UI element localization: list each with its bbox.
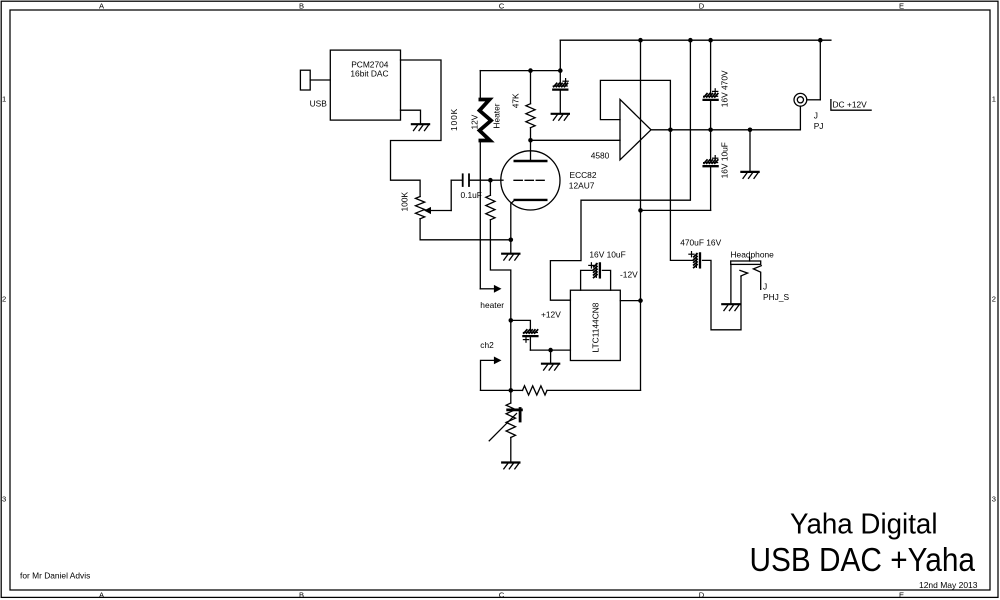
wire supply to LTC1144 [550,40,690,300]
label heater net [480,300,504,310]
ground under rail cap [552,114,569,120]
svg-text:D: D [699,2,705,11]
node op-amp output [668,128,673,133]
node ch2 arrow [481,357,502,391]
resistor R 47K [526,71,535,141]
node signal bottom junction [509,388,514,393]
wire op-amp output row [651,129,800,131]
svg-text:100K: 100K [449,108,459,131]
IC U3 LTC1144CN8 [570,290,620,360]
label +12V [541,310,561,320]
node +12V signal junction [509,318,514,323]
svg-text:16V 470V: 16V 470V [719,70,729,107]
label Headphone [731,250,775,260]
svg-text:12V: 12V [470,114,480,129]
label 16V 10uF pump [589,250,625,260]
svg-text:Heater: Heater [491,103,501,128]
svg-text:C: C [499,2,505,11]
ground at +12V pin [542,364,559,370]
ground under cathode [502,254,519,260]
connector J PJ DC jack [794,40,820,130]
capacitor bypass at rail [553,40,568,112]
node +12V ground junction [548,348,570,363]
tube V1 ECC82 [501,140,560,240]
svg-text:LTC1144CN8: LTC1144CN8 [590,302,600,352]
svg-text:16V 10uF: 16V 10uF [589,250,625,260]
capacitor C 16V 10uF pump [581,263,611,290]
ground under trimmer [502,463,519,469]
svg-text:USB: USB [310,98,328,108]
label 16V 10uF right [719,142,729,178]
label 0.1uF [461,190,482,200]
svg-text:47K: 47K [511,93,521,108]
wire USB to PCM2704 [310,79,330,81]
svg-text:E: E [899,2,904,11]
svg-text:1: 1 [2,95,6,104]
label bracket DC +12V [831,100,871,111]
wire anode to op-amp [531,139,621,141]
svg-text:D: D [699,591,705,600]
resistor grid leak [486,180,511,320]
resistor heater 12V [480,71,492,289]
wire PCM2704 pin to ground [401,110,421,123]
label LTC1144CN8 [590,302,600,352]
svg-text:ECC82: ECC82 [570,170,597,180]
svg-text:Headphone: Headphone [731,250,775,260]
label J PJ [814,110,824,130]
svg-text:100K: 100K [400,192,410,212]
svg-text:E: E [899,591,904,600]
label 16V 470V [719,70,729,107]
label Heater [491,103,501,128]
svg-text:3: 3 [992,495,996,504]
node rail at 690 [688,38,693,43]
svg-text:B: B [299,2,304,11]
svg-text:heater: heater [480,300,504,310]
node output at 710 [708,128,713,133]
node grid junction [488,178,493,183]
svg-text:ch2: ch2 [480,340,494,350]
wire 640 vertical [640,40,642,390]
label title USB DAC +Yaha [750,542,976,579]
svg-text:12nd May 2013: 12nd May 2013 [919,580,978,590]
ground at output [741,172,758,178]
node cathode junction [509,238,514,253]
wire signal vertical [481,320,511,403]
IC U1 PCM2704 [330,50,400,120]
svg-text:PHJ_S: PHJ_S [763,292,789,302]
svg-text:2: 2 [2,295,6,304]
label title Yaha Digital [790,509,938,541]
node heater arrow [480,285,501,293]
node 47K top [528,68,533,73]
svg-text:16bit DAC: 16bit DAC [350,69,388,79]
node rail at DC jack [818,38,823,43]
node rail at 640 [638,38,643,43]
label PCM2704 [350,59,388,78]
capacitor C +12V decouple [511,320,551,350]
wire grid node to tube [490,179,503,181]
label DC +12V [833,99,868,109]
wire 710 bottom to 640 [641,209,711,211]
connector J PHJ_S headphone jack [731,258,762,304]
svg-text:470uF 16V: 470uF 16V [680,237,721,247]
label ch2 net [480,340,494,350]
node -12V junction [638,298,643,303]
label 470uF 16V [680,237,721,247]
node rail at 710 [708,38,713,43]
svg-text:J: J [814,110,818,120]
label 100K upper [449,108,459,131]
svg-text:2: 2 [992,295,996,304]
svg-text:USB DAC +Yaha: USB DAC +Yaha [750,542,976,579]
label 4580 [591,150,610,160]
svg-text:B: B [299,591,304,600]
svg-text:0.1uF: 0.1uF [461,190,482,200]
svg-text:3: 3 [2,495,6,504]
op-amp U2 4580 [620,99,651,159]
wire pot bottom to cathode node [420,219,511,240]
label date 12nd May 2013 [919,580,978,590]
label 47K [511,93,521,108]
label 12V [470,114,480,129]
label 100K pot [400,192,410,212]
svg-text:PJ: PJ [814,121,824,131]
svg-text:1: 1 [992,95,996,104]
capacitor C 470uF 16V [670,130,741,330]
node 640 at 210 [638,208,643,213]
label for Mr Daniel Advis [20,571,90,581]
capacitor C 16V 10uF [704,156,718,211]
svg-text:4580: 4580 [591,150,610,160]
node anode junction [528,138,533,143]
svg-text:J: J [763,281,767,291]
node rail cap junction [558,68,563,73]
wire LTC1144 -12V output [620,300,640,302]
wire rail 12V row [480,70,560,72]
label J PHJ_S [763,281,789,301]
label ECC82 12AU7 [569,170,597,190]
ground headphone sleeve [722,304,739,310]
svg-text:DC +12V: DC +12V [833,99,868,109]
wire top supply rail [560,39,831,41]
svg-text:for Mr Daniel Advis: for Mr Daniel Advis [20,571,90,581]
svg-text:-12V: -12V [620,270,638,280]
capacitor C 0.1uF [463,174,491,186]
svg-text:Yaha Digital: Yaha Digital [790,509,938,541]
label -12V [620,270,638,280]
svg-text:12AU7: 12AU7 [569,180,595,190]
svg-text:C: C [499,591,505,600]
resistor to -12V [511,386,641,395]
ground under PCM2704 [412,124,429,130]
wire PCM2704 output to pot 100K [391,60,442,197]
svg-text:+12V: +12V [541,310,561,320]
potentiometer R 100K [416,180,462,219]
connector USB [300,70,310,90]
wire op-amp feedback loop [600,80,670,129]
node output ground junction [748,128,753,171]
label USB [310,98,328,108]
trimmer resistor volume [489,403,521,462]
svg-text:16V 10uF: 16V 10uF [719,142,729,178]
capacitor C 16V 470V [704,40,718,160]
